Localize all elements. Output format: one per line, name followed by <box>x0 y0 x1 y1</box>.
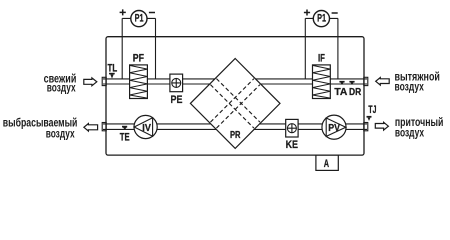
svg-text:воздух: воздух <box>395 81 425 94</box>
wire P1-left minus leg <box>147 18 156 79</box>
svg-text:P1: P1 <box>317 13 326 25</box>
controller box A <box>316 155 338 170</box>
svg-text:PE: PE <box>171 94 183 106</box>
svg-text:KE: KE <box>286 139 298 151</box>
svg-text:TL: TL <box>108 62 118 74</box>
pressure sensor P1 right <box>313 11 329 27</box>
lower duct (exhaust/supply air path) <box>103 124 367 129</box>
heat exchanger PR (cross-flow recuperator) <box>190 59 280 149</box>
flow arrow discharged air (left-pointing) <box>84 124 98 132</box>
sensor TL <box>108 62 118 78</box>
svg-text:TA: TA <box>334 87 347 98</box>
svg-text:TE: TE <box>120 132 130 144</box>
flow arrow supply air (right-pointing) <box>375 122 388 130</box>
minus sign right P1 <box>332 12 338 14</box>
plus sign right P1 <box>304 10 310 16</box>
duct flange lower-right <box>364 123 368 131</box>
sensor TE <box>120 126 130 144</box>
label fresh air <box>44 72 77 94</box>
svg-text:DR: DR <box>349 87 362 98</box>
label discharged air <box>3 117 78 141</box>
flow arrow extract air (left-pointing) <box>376 78 390 86</box>
sensor TJ <box>367 104 377 121</box>
fan IV (exhaust fan) <box>134 115 157 138</box>
filter IF <box>313 52 331 98</box>
plus sign left P1 <box>120 9 126 15</box>
svg-text:A: A <box>324 158 329 170</box>
wire P1-left plus leg <box>122 18 131 79</box>
wire P1-right plus leg <box>305 18 313 79</box>
svg-text:P1: P1 <box>135 13 144 25</box>
electric heater KE <box>286 119 299 151</box>
fan PV (supply fan) <box>322 115 346 139</box>
pressure sensor P1 left <box>131 11 147 27</box>
svg-text:IV: IV <box>142 122 151 134</box>
upper duct (fresh/extract air path) <box>103 79 367 84</box>
svg-text:TJ: TJ <box>368 104 376 116</box>
minus sign left P1 <box>149 12 155 14</box>
flow arrow fresh air (right-pointing) <box>84 78 97 86</box>
svg-text:воздух: воздух <box>395 126 425 139</box>
filter PF <box>130 52 148 98</box>
wire P1-right minus leg <box>329 18 338 79</box>
label supply air <box>395 116 444 139</box>
duct flange upper-left <box>102 77 106 85</box>
svg-text:PV: PV <box>328 122 340 134</box>
svg-text:воздух: воздух <box>47 82 76 95</box>
svg-text:воздух: воздух <box>46 128 75 141</box>
svg-text:PF: PF <box>133 52 144 64</box>
label extract air <box>395 70 440 93</box>
unit casing box <box>106 37 364 155</box>
electric heater PE <box>170 74 183 106</box>
svg-text:IF: IF <box>318 52 325 64</box>
duct flange lower-left <box>102 123 106 131</box>
sensor TA <box>334 81 347 98</box>
svg-text:PR: PR <box>230 129 241 141</box>
sensor DR <box>349 81 362 98</box>
duct flange upper-right <box>364 77 368 85</box>
